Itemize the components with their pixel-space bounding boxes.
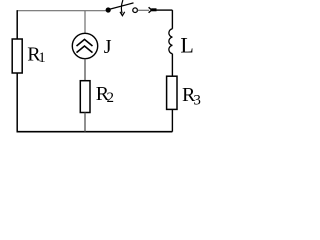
svg-text:3: 3 [193, 93, 201, 109]
svg-text:1: 1 [38, 50, 46, 66]
switch motion arrow [121, 0, 123, 13]
svg-text:L: L [180, 32, 193, 57]
current direction arrow barbs [149, 7, 152, 13]
wire middle branch between source and R2 [84, 59, 86, 81]
wire from switch to current arrow [138, 9, 149, 11]
resistor R2 [80, 81, 90, 113]
wire left vertical lower [16, 73, 18, 132]
current source J lower chevron [77, 46, 93, 53]
wire from arrow to top-right corner [157, 9, 173, 11]
wire left vertical upper [16, 10, 18, 39]
inductor L (three humps) [169, 29, 173, 54]
svg-text:2: 2 [107, 90, 115, 106]
svg-text:J: J [104, 36, 112, 58]
current direction arrow bar [151, 8, 156, 11]
wire top-left horizontal (node 1 to switch) [17, 10, 106, 12]
wire right vertical between L and R3 [171, 54, 173, 77]
current source J circle [72, 33, 97, 58]
wire right vertical lower [171, 110, 173, 132]
switch open contact circle [133, 8, 138, 13]
wire middle branch lower [84, 113, 86, 132]
current source J upper chevron [77, 39, 93, 46]
resistor R3 [167, 76, 177, 109]
wire bottom horizontal [17, 131, 173, 133]
wire middle branch upper (junction to source) [84, 11, 86, 34]
resistor R1 [12, 39, 22, 73]
wire right vertical upper [171, 10, 173, 29]
switch blade [110, 3, 134, 9]
switch closed contact dot [106, 7, 111, 12]
